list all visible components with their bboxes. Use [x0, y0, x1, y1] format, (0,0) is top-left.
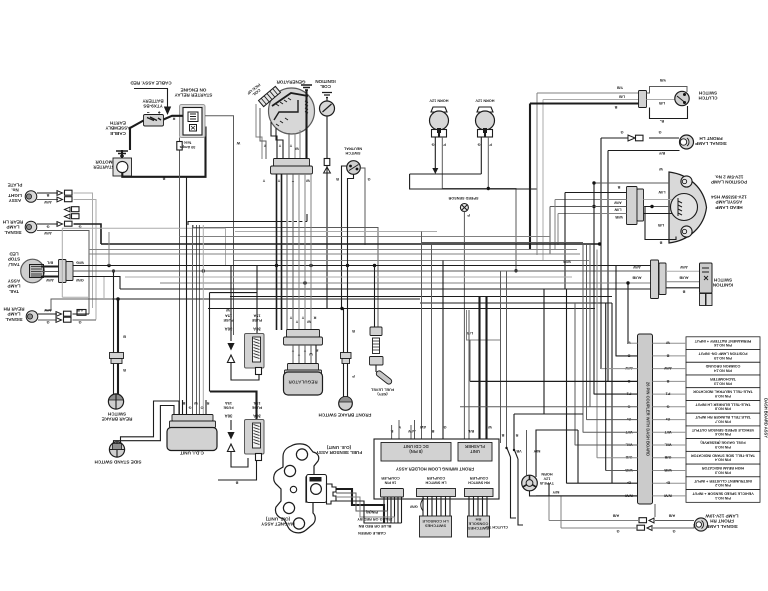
front brake switch S7 — [339, 397, 353, 411]
svg-text:Y: Y — [301, 316, 304, 320]
head lamp bulb — [671, 194, 698, 221]
ignition key switch contacts — [513, 414, 515, 449]
bullet connector pair 2 — [57, 197, 63, 202]
LH console coupler box — [420, 516, 452, 537]
wire: fuse 2 ground tail — [218, 461, 257, 481]
svg-text:15A/1G OR RED BY: 15A/1G OR RED BY — [357, 517, 393, 521]
wire: key switch feed x544 — [543, 289, 545, 414]
pigtails into loom box — [392, 420, 415, 439]
svg-text:L/B: L/B — [467, 331, 473, 335]
wire: dash riser x431 — [431, 245, 433, 439]
svg-text:B: B — [666, 379, 669, 383]
svg-text:R: R — [313, 316, 316, 320]
front brake switch risers — [343, 309, 345, 398]
svg-text:L/B: L/B — [659, 101, 665, 105]
svg-text:Gr: Gr — [665, 417, 670, 421]
svg-text:G: G — [367, 177, 370, 181]
wire: generator earth lead (thick) — [305, 90, 307, 159]
svg-text:AW: AW — [420, 425, 427, 429]
svg-text:W/B: W/B — [664, 468, 672, 472]
pin row PIN NO.13 — [686, 375, 760, 388]
svg-text:BLUE OR RED BN: BLUE OR RED BN — [358, 524, 391, 528]
wire: trunk x209 — [209, 293, 211, 392]
bends of headlamp feeds to bus verticals — [564, 193, 566, 290]
wire: horn2 right lead (grey) — [487, 137, 489, 189]
flasher grey box — [458, 443, 492, 462]
fuse holder 1 — [256, 266, 258, 335]
svg-text:B: B — [123, 368, 126, 372]
wire: key switch feed x506 — [506, 271, 508, 447]
wire: riser x109 — [108, 232, 110, 266]
pin row PIN NO.15 — [686, 350, 760, 363]
svg-text:L/B: L/B — [619, 95, 625, 99]
wire: dash riser x500 — [500, 271, 502, 443]
wire: harness run y249 — [89, 249, 577, 251]
fuel sensor / magnet assy bracket — [274, 444, 319, 533]
regulator body — [284, 372, 323, 395]
svg-text:30A: 30A — [225, 414, 233, 419]
fuel sender coupler — [370, 327, 382, 336]
svg-text:G/W: G/W — [410, 505, 418, 509]
svg-text:B: B — [501, 433, 504, 437]
svg-text:FRONT WIRING LOOM HOLDER ASSY: FRONT WIRING LOOM HOLDER ASSY — [396, 467, 474, 472]
clutch switch S4 — [675, 91, 689, 105]
svg-text:W/L: W/L — [664, 443, 672, 447]
battery B1 — [144, 115, 164, 127]
inline connector on rear RH feed — [77, 310, 86, 316]
position lamp bottom — [681, 226, 692, 237]
ignition coil ground — [322, 93, 332, 98]
wire: horn bus line — [410, 173, 482, 175]
wire: generator phase leads — [271, 122, 277, 159]
svg-text:G: G — [672, 529, 675, 533]
inline coupler on brake lines — [110, 353, 124, 359]
pin row PIN NO.2 — [686, 477, 760, 490]
svg-text:W/T: W/T — [664, 430, 672, 434]
svg-text:PIN(M): PIN(M) — [365, 510, 378, 514]
svg-text:B: B — [123, 335, 126, 339]
key/plug piece — [327, 484, 337, 504]
wire: rear RH brake tap — [45, 299, 112, 311]
svg-text:B: B — [162, 177, 165, 181]
svg-text:LH CONSOLESWITCHES: LH CONSOLESWITCHES — [422, 519, 449, 529]
svg-text:Y: Y — [263, 144, 266, 148]
wire: tail lamp ground elbow — [73, 277, 121, 290]
svg-text:B/Y: B/Y — [658, 151, 665, 155]
svg-text:A/W: A/W — [44, 231, 52, 235]
pickup coil connector (slanted, hatched) — [259, 86, 281, 106]
wire: generator lead x311 — [310, 174, 312, 330]
regulator coupler bars — [287, 330, 320, 338]
svg-text:W: W — [488, 425, 492, 429]
wire: tail lamp line y271 — [73, 270, 652, 272]
front LH turn signal lamp — [680, 135, 694, 149]
svg-text:VB: VB — [516, 449, 522, 453]
arrowhead into battery positive — [164, 107, 171, 116]
wire: trunk x612 — [611, 303, 613, 483]
wire: generator phase pair to regulator — [277, 174, 282, 330]
horn H1 — [431, 107, 447, 112]
wire: coupler to front RH signal connector — [654, 504, 656, 517]
arrow terminating on bus — [432, 168, 438, 174]
svg-text:A/W: A/W — [44, 200, 52, 204]
wires — [38, 313, 57, 315]
svg-text:Y/B: Y/B — [660, 78, 667, 82]
in-line connector on coil wire — [324, 159, 330, 166]
wire: clutch drop black — [529, 104, 531, 251]
svg-text:REGULATOR: REGULATOR — [288, 380, 318, 385]
wire: generator lead x287 — [286, 174, 288, 330]
svg-text:W: W — [307, 320, 311, 324]
wires: sensor harness to loom connector 1 — [336, 489, 384, 523]
svg-text:CABLE ASSY. RED: CABLE ASSY. RED — [130, 81, 172, 86]
generator ground — [301, 85, 312, 90]
ignition switch coupler bars — [651, 260, 659, 299]
svg-text:W/G: W/G — [76, 261, 84, 265]
wire: coil ground bus y308 — [208, 308, 595, 310]
wire: pickup leads down to coupler — [256, 104, 262, 159]
svg-text:SWITCHCLUTCH: SWITCHCLUTCH — [698, 91, 718, 101]
front wiring loom box — [374, 439, 499, 499]
wire: ignition feed y283 — [160, 282, 651, 284]
svg-text:P1: P1 — [666, 392, 671, 396]
generator coupler (two grey bars) — [274, 159, 310, 167]
svg-text:B: B — [46, 193, 49, 197]
wire: generator lead x299 — [298, 174, 300, 330]
wire: coupler to switch top (Y/B) — [647, 87, 688, 94]
svg-text:W: W — [236, 141, 240, 145]
wire: loom loop bottom — [62, 296, 89, 298]
svg-text:M/Y: M/Y — [552, 490, 559, 494]
wire: ground bus y289 — [120, 288, 651, 290]
svg-text:G: G — [46, 320, 49, 324]
regulator pigtails — [293, 345, 311, 364]
wire: trunk x186 starter to cdi — [186, 177, 188, 416]
connector group 2 pins — [423, 497, 450, 517]
svg-text:FRONT LHSIGNAL LAMP: FRONT LHSIGNAL LAMP — [695, 136, 727, 146]
wire: elbow y292 — [210, 292, 258, 294]
svg-text:O: O — [200, 406, 203, 410]
wire: riser x104 — [103, 277, 105, 299]
position lamp top — [681, 176, 692, 187]
coupler row feed wires — [628, 342, 638, 344]
svg-text:12V-5W 2 No.POSITION LAMP: 12V-5W 2 No.POSITION LAMP — [711, 175, 747, 185]
wire: stop lamp main line y265 — [73, 265, 652, 267]
wire: number plate feeds onward — [74, 193, 93, 308]
wire: harness run y242 — [422, 242, 584, 244]
svg-text:(O.E. UNIT)MAGNET ASSY: (O.E. UNIT)MAGNET ASSY — [261, 517, 295, 527]
svg-text:W: W — [659, 167, 663, 171]
svg-text:R: R — [515, 433, 518, 437]
svg-text:G: G — [620, 130, 623, 134]
sensor body on bracket — [307, 475, 327, 503]
wires into coupler from left — [565, 192, 627, 194]
pin row PIN NO.5 — [686, 439, 760, 452]
svg-text:G: G — [477, 143, 480, 147]
wire: dash riser x469 — [468, 310, 470, 439]
svg-text:B: B — [352, 329, 355, 333]
neutral switch S3 — [347, 161, 361, 175]
rear LH signal lamp — [25, 221, 37, 233]
svg-text:26 PIN COUPLER WITH DASH BOARD: 26 PIN COUPLER WITH DASH BOARD — [646, 382, 651, 456]
svg-text:Y: Y — [278, 144, 281, 148]
connector group 1 pins — [384, 497, 402, 523]
svg-text:W: W — [226, 308, 230, 312]
svg-text:L/W: L/W — [658, 190, 665, 194]
svg-text:G: G — [616, 529, 619, 533]
fuse holder 2 — [245, 420, 265, 455]
wire: battery negative cable (thick diagonal) — [130, 121, 144, 151]
svg-text:AU/B: AU/B — [679, 276, 689, 280]
svg-text:A/B: A/B — [668, 514, 675, 518]
horn H2 — [477, 107, 493, 112]
wire: cluster feed x566 — [566, 289, 568, 483]
spare bullet connectors — [65, 207, 71, 212]
regulator header — [288, 364, 319, 371]
svg-text:B₁: B₁ — [659, 119, 664, 123]
wire: position lamp feed (W) — [594, 182, 669, 184]
svg-text:HORN 12V: HORN 12V — [429, 99, 448, 103]
svg-text:W: W — [666, 341, 670, 345]
wire: dash riser x421 — [421, 232, 423, 440]
wire: loom loop drop — [225, 228, 227, 265]
rear RH signal lamp — [26, 311, 38, 323]
headlamp assembly outline — [669, 172, 707, 243]
front RH signal connectors — [649, 518, 654, 523]
svg-text:A/W: A/W — [633, 265, 641, 269]
svg-text:A/W: A/W — [614, 201, 622, 205]
svg-text:COUPLERRH SWITCH: COUPLERRH SWITCH — [468, 476, 490, 484]
svg-text:Y: Y — [289, 316, 292, 320]
wire: ground bus y296 — [230, 296, 612, 298]
svg-text:DASH BOARD ASSY: DASH BOARD ASSY — [764, 398, 768, 438]
rear brake switch lines — [113, 271, 115, 396]
wire: harness run y260 — [234, 260, 589, 262]
wire: trunk x203 — [202, 225, 204, 415]
svg-text:AU/B: AU/B — [632, 276, 642, 280]
pin row PIN NO.16 — [686, 337, 760, 350]
svg-text:A/B: A/B — [76, 308, 83, 312]
wire: trunk x583 — [582, 245, 584, 433]
svg-text:G: G — [658, 130, 661, 134]
pin row PIN NO.8 — [686, 401, 760, 414]
ground joint above starter motor — [116, 151, 128, 156]
cdi coupler bars — [172, 415, 213, 422]
spare fuse holder 2 (bullet pair) — [230, 420, 232, 430]
wires into clutch connector from left — [537, 92, 639, 94]
wire: riser x628 to coupler — [627, 283, 629, 344]
wire: side stand to cdi — [114, 406, 175, 444]
wire: battery + to relay — [164, 116, 184, 120]
svg-text:FRONT BRAKE SWITCH: FRONT BRAKE SWITCH — [318, 413, 372, 418]
svg-text:G: G — [443, 425, 446, 429]
wire: number-plate loom loop top — [62, 228, 225, 297]
number plate lamp E4 — [25, 191, 37, 203]
svg-text:W/B: W/B — [563, 260, 571, 264]
svg-text:W/B: W/B — [615, 215, 623, 219]
wire: horn ground to coupler row — [530, 491, 638, 496]
26 pin coupler bar — [638, 334, 653, 504]
wire: harness run y277 — [125, 276, 572, 278]
wire: trunk x594 — [593, 183, 595, 394]
svg-text:HORN 12V: HORN 12V — [475, 99, 494, 103]
svg-text:B: B — [659, 241, 662, 245]
wire: neutral switch right lead — [360, 168, 365, 245]
svg-text:ASSYLAMPTAIL: ASSYLAMPTAIL — [7, 279, 20, 294]
svg-text:G: G — [431, 143, 434, 147]
svg-text:B: B — [617, 185, 620, 189]
battery terminals — [147, 111, 160, 113]
svg-text:G/B: G/B — [664, 455, 671, 459]
svg-text:B: B — [235, 481, 238, 485]
svg-text:P: P — [443, 143, 446, 147]
wire: brake feed y299 — [112, 298, 420, 300]
svg-text:Y/B: Y/B — [617, 86, 624, 90]
svg-text:B: B — [666, 353, 669, 357]
svg-text:B/L: B/L — [46, 261, 53, 265]
svg-text:COUPLERLH SWITCH: COUPLERLH SWITCH — [425, 476, 446, 484]
wire: front LH signal feed with bullet connector — [649, 137, 679, 139]
pin row PIN NO.9 — [686, 388, 760, 401]
bracket holes — [296, 449, 307, 460]
svg-text:W: W — [306, 179, 310, 183]
wire: harness run y231 — [235, 231, 437, 233]
wire: dash riser x443 — [442, 261, 444, 440]
svg-text:NEUTRALSWITCH: NEUTRALSWITCH — [343, 147, 362, 155]
svg-text:G/W: G/W — [76, 278, 84, 282]
wire: flasher feed thick pair — [480, 297, 487, 444]
svg-text:L/B: L/B — [658, 223, 664, 227]
wire: starter motor to relay (thick bottom run) — [122, 127, 205, 177]
svg-text:Y: Y — [295, 320, 298, 324]
wire: trunk x597 — [596, 250, 598, 458]
svg-text:G: G — [46, 225, 49, 229]
svg-text:A/W: A/W — [664, 366, 672, 370]
svg-text:LEDSTOPTAIL/: LEDSTOPTAIL/ — [8, 252, 21, 267]
junction on stop lamp line — [514, 269, 517, 272]
pin row PIN NO.6 — [686, 426, 760, 439]
wire: cable-assy-red leader — [134, 89, 168, 110]
clutch inline coupler — [639, 91, 647, 108]
wires bars to ignition switch — [666, 270, 700, 272]
svg-text:W: W — [295, 147, 299, 151]
svg-text:A/B: A/B — [612, 514, 619, 518]
RH console coupler box — [468, 516, 490, 537]
svg-text:G: G — [666, 404, 669, 408]
svg-text:G: G — [78, 320, 81, 324]
wire: coupler to switch mid (L/B) — [647, 99, 676, 101]
wire: horn1 left lead — [434, 137, 436, 169]
wire: harness run y236 — [180, 236, 551, 238]
svg-text:SPEED SENSOR: SPEED SENSOR — [448, 196, 478, 200]
wire: trunk elbow to generator (dashed tap) — [188, 222, 283, 226]
bullet connector pair 1 — [57, 191, 63, 196]
front RH signal lamp — [694, 518, 707, 531]
svg-text:P: P — [467, 213, 470, 217]
wire: turn signal feed y244 — [101, 243, 601, 245]
wire: trunk elbow 2 to fuel sender — [193, 225, 378, 327]
wire: high beam feed x605 — [605, 303, 607, 471]
wire: trunk x192 — [192, 225, 194, 415]
ignition switch body — [700, 263, 713, 293]
wire: trunk x616 — [615, 266, 617, 357]
svg-text:A/W: A/W — [680, 265, 688, 269]
svg-text:MOTORSTARTER: MOTORSTARTER — [93, 160, 115, 170]
tail/stop lamp assembly — [21, 259, 45, 283]
pin row PIN NO.4 — [686, 451, 760, 464]
wire: band L/B step — [467, 310, 501, 340]
cdi pigtails — [183, 400, 207, 415]
tail lamp coupler bars — [59, 260, 67, 283]
wire: relay output to right (grey) — [205, 116, 234, 335]
wire: horn1 right lead (grey) — [442, 137, 516, 271]
wire: fuel gauge feed x575 — [574, 303, 576, 445]
svg-text:A/W: A/W — [46, 278, 54, 282]
svg-text:Y: Y — [289, 144, 292, 148]
wire: generator lead x305 — [304, 174, 306, 330]
wires to connectors — [37, 192, 58, 194]
svg-text:A/W: A/W — [44, 308, 52, 312]
wires into headlamp from coupler — [644, 199, 673, 201]
wire: clutch drop light — [542, 100, 544, 261]
fuel level sender risers — [374, 266, 376, 328]
pin row PIN NO.3 — [686, 464, 760, 477]
svg-text:W/W: W/W — [663, 493, 672, 497]
cdi body — [167, 428, 217, 451]
DC CDI grey box — [381, 443, 451, 462]
fuel level float arm — [375, 365, 377, 372]
svg-text:Y: Y — [262, 179, 265, 183]
svg-text:SIDE STAND SWITCH: SIDE STAND SWITCH — [94, 460, 142, 465]
wire: harness run y254 — [89, 253, 580, 255]
svg-text:G: G — [188, 406, 191, 410]
svg-text:CLUTCH TO: CLUTCH TO — [486, 525, 508, 529]
wires from tail lamp — [41, 265, 59, 267]
wire: ignition coil primary down — [326, 116, 328, 309]
wire: neutral switch left lead — [342, 166, 347, 309]
headlamp coupler bars — [627, 187, 638, 225]
wires: horn feeds — [526, 430, 528, 476]
wire: clutch drop grey — [536, 93, 538, 255]
svg-text:L/W: L/W — [614, 208, 621, 212]
wires — [37, 223, 58, 225]
side stand switch S6 — [109, 442, 124, 457]
svg-text:B: B — [614, 105, 617, 109]
fuse holder 2 feed elbow — [210, 392, 257, 421]
starter motor M — [113, 158, 132, 176]
pin row PIN NO.14 — [686, 362, 760, 375]
generator windings detail — [272, 93, 308, 106]
svg-text:CABLE GREEN: CABLE GREEN — [358, 531, 386, 535]
speed sensor B2 — [460, 204, 468, 212]
svg-text:B: B — [336, 177, 339, 181]
wire: speed sensor lead down — [463, 212, 465, 440]
ignition coil T1 — [320, 101, 335, 116]
svg-text:M/Y: M/Y — [533, 449, 540, 453]
rear brake switch S5 — [108, 394, 123, 409]
svg-text:C.D.I. UNIT: C.D.I. UNIT — [180, 451, 204, 456]
svg-text:BATTERYYTX9-BS: BATTERYYTX9-BS — [142, 99, 163, 109]
wire: coupler to switch bottom loop (B) — [650, 106, 688, 119]
svg-text:Y: Y — [277, 179, 280, 183]
wire: trunk pair x196 x199 — [197, 225, 200, 415]
svg-text:B/L: B/L — [467, 429, 474, 433]
pin row PIN NO.1 — [686, 490, 760, 503]
wire: bus y303 — [420, 302, 612, 304]
svg-text:B: B — [682, 290, 685, 294]
wire: trunk x586 — [586, 245, 588, 420]
spare fuse holder 1 (bullet pair) — [230, 266, 232, 342]
